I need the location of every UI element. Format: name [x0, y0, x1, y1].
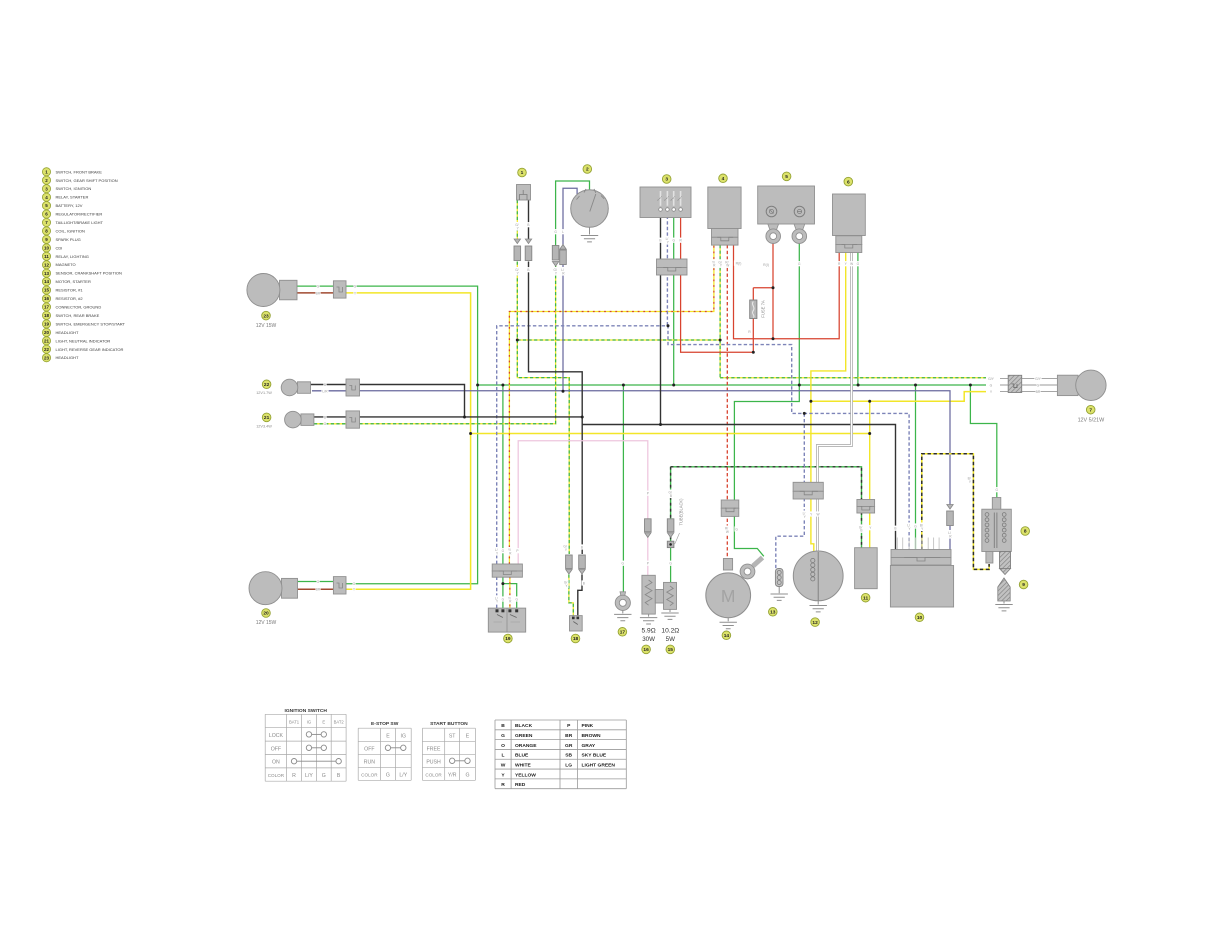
svg-text:W: W — [501, 762, 506, 768]
svg-text:12V1.7W: 12V1.7W — [256, 391, 272, 395]
svg-text:1: 1 — [521, 170, 524, 176]
svg-text:R: R — [292, 773, 296, 779]
svg-text:W: W — [726, 530, 729, 534]
svg-text:LIGHT GREEN: LIGHT GREEN — [582, 762, 616, 768]
svg-text:B: B — [659, 239, 661, 243]
svg-text:G: G — [354, 285, 357, 289]
svg-text:PINK: PINK — [582, 723, 594, 729]
svg-text:PUSH: PUSH — [426, 759, 441, 765]
svg-text:20: 20 — [263, 611, 269, 617]
svg-text:5: 5 — [785, 174, 788, 180]
svg-text:L/Y: L/Y — [399, 772, 407, 778]
svg-text:L: L — [502, 753, 505, 759]
svg-text:Y/R: Y/R — [448, 772, 457, 778]
svg-text:R(I): R(I) — [763, 263, 769, 267]
svg-text:13: 13 — [44, 271, 50, 276]
svg-text:5.9Ω: 5.9Ω — [642, 628, 656, 635]
svg-text:TAILLIGHT/BRAKE LIGHT: TAILLIGHT/BRAKE LIGHT — [56, 220, 104, 225]
svg-text:RUN: RUN — [364, 759, 375, 765]
svg-text:B: B — [670, 494, 672, 498]
svg-text:FREE: FREE — [427, 746, 441, 752]
svg-text:G: G — [1037, 383, 1040, 387]
svg-text:3: 3 — [665, 177, 668, 183]
svg-text:G: G — [324, 422, 327, 426]
svg-text:B: B — [337, 773, 341, 779]
svg-text:YELLOW: YELLOW — [515, 772, 536, 778]
svg-text:LIGHT, REVERSE GEAR INDICATOR: LIGHT, REVERSE GEAR INDICATOR — [56, 347, 124, 352]
svg-text:COLOR: COLOR — [268, 773, 285, 778]
svg-text:M: M — [721, 586, 736, 606]
svg-text:12V 15W: 12V 15W — [256, 620, 277, 626]
svg-text:TUBE(BLACK): TUBE(BLACK) — [679, 498, 684, 526]
svg-text:MOTOR, STARTER: MOTOR, STARTER — [56, 279, 91, 284]
svg-text:2: 2 — [586, 167, 589, 173]
svg-text:SB: SB — [565, 753, 572, 759]
svg-text:SENSOR, CRANKSHAFT POSITION: SENSOR, CRANKSHAFT POSITION — [56, 271, 122, 276]
svg-text:16: 16 — [44, 296, 50, 301]
svg-text:12V 5/21W: 12V 5/21W — [1078, 418, 1106, 424]
svg-text:18: 18 — [44, 313, 50, 318]
svg-text:BR: BR — [316, 292, 321, 296]
svg-text:COLOR: COLOR — [361, 772, 378, 777]
svg-text:G: G — [317, 580, 320, 584]
svg-text:G: G — [386, 772, 390, 778]
svg-text:COIL, IGNITION: COIL, IGNITION — [56, 228, 85, 233]
svg-text:ON: ON — [272, 760, 280, 766]
svg-text:BR: BR — [565, 733, 573, 739]
svg-text:IGNITION SWITCH: IGNITION SWITCH — [285, 708, 328, 714]
svg-text:SWITCH, EMERGENCY STOP/START: SWITCH, EMERGENCY STOP/START — [56, 321, 126, 326]
svg-text:L/R: L/R — [322, 389, 328, 393]
svg-text:BR: BR — [1036, 390, 1041, 394]
svg-text:R(I): R(I) — [736, 262, 742, 266]
svg-text:22: 22 — [264, 382, 270, 388]
svg-text:15: 15 — [668, 647, 674, 653]
svg-text:21: 21 — [44, 338, 50, 343]
svg-text:W: W — [816, 512, 819, 516]
svg-text:G: G — [353, 582, 356, 586]
svg-text:P: P — [647, 562, 649, 566]
svg-text:5W: 5W — [666, 636, 675, 643]
svg-text:10: 10 — [44, 246, 50, 251]
svg-text:4: 4 — [722, 176, 725, 182]
svg-text:SPARK PLUG: SPARK PLUG — [56, 237, 81, 242]
svg-text:R: R — [501, 782, 505, 788]
svg-text:20: 20 — [44, 330, 50, 335]
svg-text:ORANGE: ORANGE — [515, 743, 537, 749]
svg-text:P: P — [516, 549, 518, 553]
svg-text:BAT2: BAT2 — [334, 720, 345, 725]
svg-text:BLACK: BLACK — [515, 723, 533, 729]
svg-text:10: 10 — [917, 615, 923, 621]
svg-text:RESISTOR, #1: RESISTOR, #1 — [56, 288, 84, 293]
svg-text:SWITCH, GEAR SHIFT POSITION: SWITCH, GEAR SHIFT POSITION — [56, 178, 118, 183]
svg-text:19: 19 — [44, 322, 50, 327]
svg-text:P: P — [647, 492, 649, 496]
svg-text:10.2Ω: 10.2Ω — [661, 628, 679, 635]
svg-text:WHITE: WHITE — [515, 762, 531, 768]
svg-text:12: 12 — [812, 620, 818, 626]
svg-text:COLOR: COLOR — [425, 772, 442, 777]
svg-text:BATTERY, 12V: BATTERY, 12V — [56, 203, 83, 208]
svg-text:CDI: CDI — [56, 245, 63, 250]
svg-text:HEADLIGHT: HEADLIGHT — [56, 355, 79, 360]
svg-text:IG: IG — [401, 734, 406, 740]
svg-text:E: E — [322, 720, 325, 725]
svg-text:GRAY: GRAY — [582, 743, 596, 749]
svg-text:G/Y: G/Y — [1035, 377, 1042, 381]
svg-text:14: 14 — [724, 633, 730, 639]
svg-text:15: 15 — [44, 288, 50, 293]
svg-text:17: 17 — [44, 305, 50, 310]
svg-text:OFF: OFF — [271, 746, 281, 752]
svg-text:SWITCH, REAR BRAKE: SWITCH, REAR BRAKE — [56, 313, 100, 318]
svg-text:B: B — [894, 527, 896, 531]
svg-text:IG: IG — [307, 720, 311, 725]
svg-text:GR: GR — [565, 743, 573, 749]
svg-text:12V3.4W: 12V3.4W — [256, 424, 272, 428]
svg-text:BR: BR — [316, 588, 321, 592]
svg-text:LG: LG — [565, 762, 572, 768]
svg-text:W: W — [726, 264, 729, 268]
svg-text:FUSE 7A: FUSE 7A — [761, 300, 766, 318]
svg-text:13: 13 — [770, 610, 776, 616]
svg-text:B: B — [581, 545, 583, 549]
svg-text:23: 23 — [44, 355, 50, 360]
svg-text:B: B — [860, 529, 862, 533]
svg-text:L: L — [562, 230, 564, 234]
svg-text:HEADLIGHT: HEADLIGHT — [56, 330, 79, 335]
svg-text:17: 17 — [620, 630, 626, 636]
svg-text:SKY BLUE: SKY BLUE — [582, 753, 607, 759]
svg-text:16: 16 — [643, 647, 649, 653]
svg-text:SWITCH, IGNITION: SWITCH, IGNITION — [56, 186, 92, 191]
svg-text:19: 19 — [505, 636, 511, 642]
svg-text:7: 7 — [1089, 407, 1092, 413]
svg-text:O: O — [501, 743, 505, 749]
svg-text:GREEN: GREEN — [515, 733, 533, 739]
svg-text:ST: ST — [449, 734, 456, 740]
svg-text:B: B — [527, 268, 529, 272]
svg-text:BLUE: BLUE — [515, 753, 529, 759]
svg-text:RESISTOR, #2: RESISTOR, #2 — [56, 296, 84, 301]
svg-text:G: G — [990, 383, 993, 387]
svg-text:G: G — [317, 285, 320, 289]
svg-text:18: 18 — [573, 636, 579, 642]
svg-text:RELAY, LIGHTING: RELAY, LIGHTING — [56, 254, 89, 259]
svg-text:G: G — [465, 772, 469, 778]
svg-text:8: 8 — [1024, 529, 1027, 535]
svg-text:LOCK: LOCK — [269, 733, 284, 739]
svg-text:G/Y: G/Y — [988, 377, 995, 381]
svg-text:B: B — [501, 723, 505, 729]
svg-text:START BUTTON: START BUTTON — [430, 721, 468, 727]
svg-text:B: B — [583, 581, 585, 585]
svg-text:G: G — [322, 773, 326, 779]
svg-text:MAGNETO: MAGNETO — [56, 262, 76, 267]
svg-text:BROWN: BROWN — [582, 733, 601, 739]
svg-text:9: 9 — [1022, 582, 1025, 588]
svg-text:OFF: OFF — [364, 746, 374, 752]
svg-text:6: 6 — [847, 179, 850, 185]
svg-text:RED: RED — [515, 782, 526, 788]
svg-text:CONNECTOR, GROUND: CONNECTOR, GROUND — [56, 305, 102, 310]
svg-text:22: 22 — [44, 347, 50, 352]
svg-text:BAT1: BAT1 — [289, 720, 300, 725]
svg-text:LIGHT, NEUTRAL INDICATOR: LIGHT, NEUTRAL INDICATOR — [56, 338, 111, 343]
svg-text:30W: 30W — [642, 636, 655, 643]
svg-text:SWITCH, FRONT BRAKE: SWITCH, FRONT BRAKE — [56, 169, 103, 174]
svg-text:RELAY, STARTER: RELAY, STARTER — [56, 195, 89, 200]
svg-text:E-STOP SW: E-STOP SW — [371, 721, 399, 727]
svg-text:23: 23 — [263, 313, 269, 319]
svg-text:W: W — [850, 262, 853, 266]
svg-text:12V 15W: 12V 15W — [256, 323, 277, 329]
svg-text:E: E — [466, 734, 470, 740]
svg-text:L/Y: L/Y — [305, 773, 313, 779]
svg-text:21: 21 — [264, 415, 270, 421]
svg-text:B: B — [527, 223, 529, 227]
svg-text:G: G — [501, 733, 505, 739]
svg-text:11: 11 — [863, 595, 868, 601]
svg-text:11: 11 — [44, 254, 49, 259]
svg-text:14: 14 — [44, 279, 50, 284]
svg-text:E: E — [386, 734, 390, 740]
svg-text:12: 12 — [44, 262, 50, 267]
svg-text:REGULATOR/RECTIFIER: REGULATOR/RECTIFIER — [56, 212, 103, 217]
